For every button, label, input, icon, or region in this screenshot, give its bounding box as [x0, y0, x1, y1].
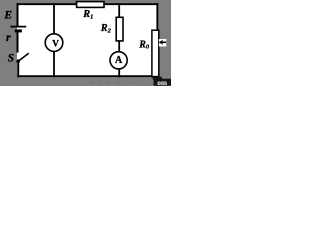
svg-text:A: A [115, 55, 123, 66]
wire: bottom rail [17, 75, 157, 77]
battery E short thick plate [15, 29, 22, 32]
svg-text:om: om [157, 78, 168, 86]
resistor R1 [77, 2, 104, 8]
wire: R2 down to ammeter [118, 41, 120, 53]
svg-text:S: S [8, 53, 14, 65]
wire: R2 branch from top rail [118, 3, 120, 18]
watermark logo block [154, 79, 172, 86]
rheostat slider white patch [159, 39, 166, 47]
wire: right rail from top corner down to rheostat [156, 3, 158, 31]
gray page background [0, 0, 171, 86]
rheostat slider arrow shaft [160, 41, 167, 43]
circuit interior white field [17, 3, 159, 77]
svg-text:r: r [6, 30, 11, 44]
wire: voltmeter branch lower [53, 50, 55, 77]
rheostat slider arrow head [159, 40, 163, 45]
svg-text:E: E [3, 8, 12, 21]
switch S hinge dot [16, 59, 20, 63]
watermark logo block connector [153, 77, 163, 80]
battery E long plate [10, 26, 26, 28]
voltmeter V body [45, 34, 63, 52]
wire: ammeter down to bottom rail [118, 67, 120, 77]
switch S blade [18, 53, 29, 61]
wire: left rail, top corner down to battery [17, 3, 19, 26]
wire: top rail [17, 3, 159, 5]
svg-text:V: V [52, 38, 59, 48]
resistor R2 [116, 17, 123, 41]
wire: battery minus down to switch [17, 32, 19, 53]
rheostat R0 body [152, 30, 159, 76]
wire: voltmeter branch upper [53, 3, 55, 35]
ammeter A body [110, 52, 127, 69]
svg-text:www.ks5u.c: www.ks5u.c [90, 77, 147, 86]
wire: switch down to bottom-left corner [17, 61, 19, 77]
